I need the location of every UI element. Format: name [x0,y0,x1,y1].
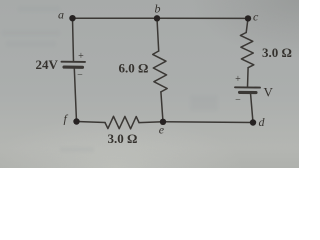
photo grain overlay [0,0,299,168]
svg-text:b: b [155,2,161,16]
wire c to resistor R2 top [246,18,248,32]
wire resistor R2 to battery V2 top [247,68,250,87]
resistor R2 3.0 ohm right zigzag [240,33,253,68]
svg-text:24V: 24V [36,57,59,72]
wire a-b top [73,17,158,19]
svg-text:V: V [264,85,274,100]
svg-text:3.0 Ω: 3.0 Ω [108,131,138,146]
node e [160,119,166,125]
wire b-c top [157,17,248,19]
svg-text:a: a [58,8,64,22]
svg-text:e: e [159,123,165,137]
wire b to resistor R1 top [157,18,159,51]
faint page bleed-through smudges [2,6,218,152]
node f [73,118,79,124]
svg-text:6.0 Ω: 6.0 Ω [119,61,149,76]
resistor R1 6.0 ohm middle zigzag [153,51,168,92]
node a [69,15,75,21]
wire e to d [163,121,253,124]
wire resistor R3 to e [139,121,163,124]
resistor R3 3.0 ohm bottom zigzag [105,116,139,129]
svg-text:c: c [253,10,259,24]
wire f to resistor R3 [77,122,106,123]
svg-text:d: d [259,115,266,129]
svg-text:+: + [78,51,84,62]
battery V2 V plates [235,87,260,92]
node b [154,15,160,21]
svg-text:−: − [235,95,241,106]
wire resistor R1 bottom to e [161,92,163,122]
svg-text:+: + [235,74,241,85]
battery V1 24V plates [62,62,86,68]
wire battery V2 bottom to d [251,93,254,123]
svg-text:−: − [77,70,83,81]
node d [250,119,256,125]
wire battery V1 bottom to f [74,68,76,121]
node c [245,15,251,21]
svg-text:3.0 Ω: 3.0 Ω [262,45,292,60]
wire a to battery V1 top [73,18,74,62]
